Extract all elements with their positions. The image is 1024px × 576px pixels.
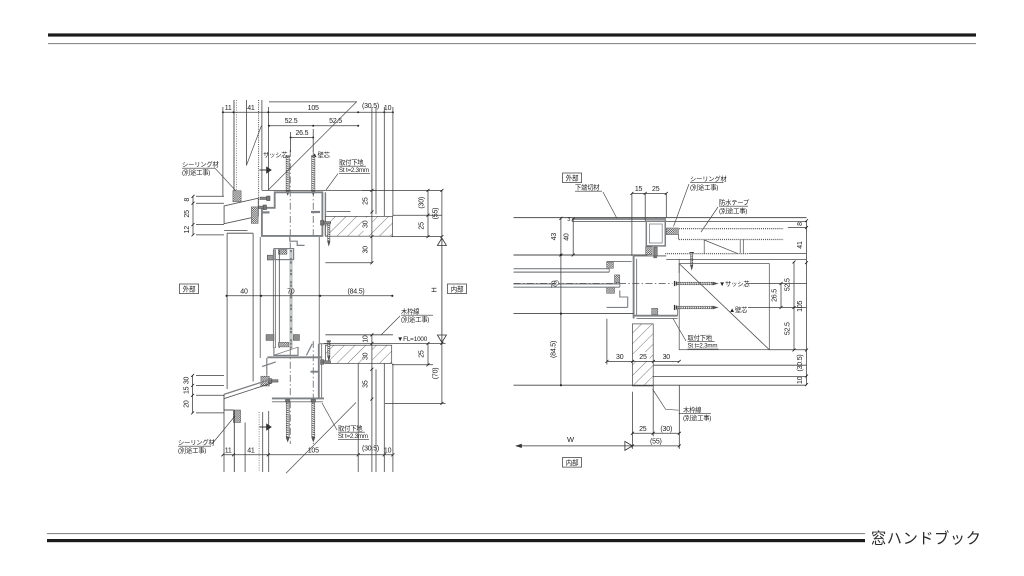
svg-text:105: 105 [308, 105, 319, 112]
svg-text:10: 10 [384, 447, 392, 454]
svg-text:下端切材: 下端切材 [575, 183, 600, 192]
svg-text:St t=2.3mm: St t=2.3mm [339, 167, 369, 174]
svg-text:25: 25 [184, 210, 191, 218]
svg-text:(55): (55) [433, 208, 440, 220]
svg-text:20: 20 [183, 400, 190, 408]
svg-text:25: 25 [419, 222, 426, 230]
svg-text:シーリング材: シーリング材 [178, 438, 215, 447]
svg-text:11: 11 [225, 447, 232, 454]
svg-text:41: 41 [247, 105, 255, 112]
svg-text:防水テープ: 防水テープ [719, 198, 750, 207]
svg-text:取付下地: 取付下地 [339, 158, 364, 167]
svg-text:(84.5): (84.5) [551, 341, 558, 358]
svg-text:St t=2.3mm: St t=2.3mm [338, 433, 368, 440]
svg-text:内部: 内部 [566, 458, 579, 467]
svg-text:サッシ芯: サッシ芯 [263, 150, 287, 159]
svg-text:10: 10 [363, 335, 370, 343]
svg-text:70: 70 [552, 280, 559, 288]
svg-text:35: 35 [363, 380, 370, 388]
svg-text:▼サッシ芯: ▼サッシ芯 [719, 279, 749, 288]
svg-text:▼FL=1000: ▼FL=1000 [397, 336, 428, 343]
svg-text:(30): (30) [660, 426, 672, 433]
svg-text:10: 10 [384, 105, 392, 112]
svg-text:(30.5): (30.5) [362, 103, 379, 110]
svg-text:25: 25 [639, 354, 647, 361]
svg-text:25: 25 [639, 426, 647, 433]
svg-text:8: 8 [797, 222, 804, 226]
svg-text:(55): (55) [650, 438, 662, 445]
svg-text:(別途工事): (別途工事) [178, 446, 206, 455]
svg-text:(84.5): (84.5) [347, 288, 364, 295]
svg-text:25: 25 [419, 350, 426, 358]
svg-text:30: 30 [183, 376, 190, 384]
svg-text:15: 15 [183, 386, 190, 394]
svg-text:30: 30 [663, 354, 671, 361]
svg-text:外部: 外部 [183, 285, 196, 294]
svg-text:St t=2.3mm: St t=2.3mm [688, 343, 718, 350]
svg-text:26.5: 26.5 [295, 130, 308, 137]
svg-text:10: 10 [797, 376, 804, 384]
svg-text:(別途工事): (別途工事) [719, 206, 747, 215]
svg-text:木枠線: 木枠線 [683, 405, 702, 414]
svg-text:12: 12 [184, 226, 191, 234]
svg-text:(30.5): (30.5) [797, 354, 804, 371]
svg-text:H: H [429, 287, 438, 292]
svg-text:W: W [567, 435, 575, 444]
svg-text:(別途工事): (別途工事) [690, 183, 718, 192]
svg-text:(別途工事): (別途工事) [401, 315, 429, 324]
svg-text:(別途工事): (別途工事) [683, 413, 711, 422]
svg-text:70: 70 [287, 288, 295, 295]
svg-text:▲壁芯: ▲壁芯 [729, 305, 747, 314]
svg-text:(30): (30) [419, 197, 426, 209]
svg-text:43: 43 [551, 233, 558, 241]
svg-text:105: 105 [308, 447, 319, 454]
svg-text:内部: 内部 [451, 285, 464, 294]
svg-text:木枠線: 木枠線 [401, 307, 420, 316]
svg-text:窓ハンドブック: 窓ハンドブック [871, 530, 982, 548]
svg-text:8: 8 [184, 198, 191, 202]
svg-text:11: 11 [225, 105, 232, 112]
svg-text:52.5: 52.5 [785, 278, 792, 291]
svg-text:(別途工事): (別途工事) [182, 168, 210, 177]
svg-text:(30.5): (30.5) [362, 446, 379, 453]
svg-text:(70): (70) [433, 368, 440, 380]
svg-text:15: 15 [635, 186, 643, 193]
svg-text:3: 3 [567, 217, 570, 223]
svg-text:40: 40 [240, 288, 248, 295]
svg-text:105: 105 [797, 300, 804, 311]
svg-text:25: 25 [652, 186, 660, 193]
svg-text:シーリング材: シーリング材 [182, 160, 219, 169]
svg-text:26.5: 26.5 [772, 289, 779, 302]
svg-text:取付下地: 取付下地 [688, 333, 713, 342]
svg-text:取付下地: 取付下地 [338, 424, 363, 433]
svg-text:シーリング材: シーリング材 [690, 174, 727, 183]
svg-text:30: 30 [363, 220, 370, 228]
svg-text:30: 30 [616, 354, 624, 361]
svg-text:52.5: 52.5 [285, 118, 298, 125]
svg-text:30: 30 [363, 246, 370, 254]
svg-text:52.5: 52.5 [329, 118, 342, 125]
svg-text:52.5: 52.5 [785, 322, 792, 335]
svg-text:41: 41 [797, 241, 804, 249]
svg-text:30: 30 [363, 352, 370, 360]
svg-text:25: 25 [363, 197, 370, 205]
svg-text:41: 41 [247, 447, 255, 454]
svg-text:40: 40 [564, 233, 571, 241]
svg-text:外部: 外部 [566, 174, 579, 183]
